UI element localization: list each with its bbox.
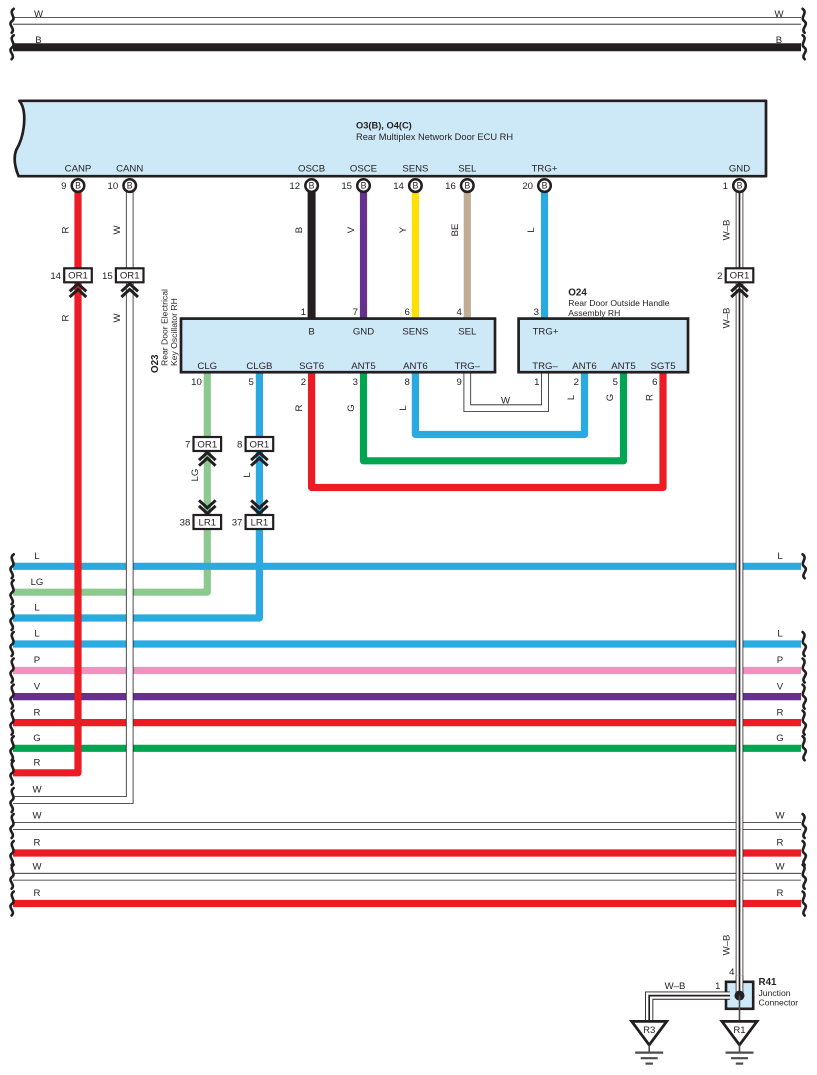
svg-text:6: 6 xyxy=(405,307,410,318)
svg-text:15: 15 xyxy=(102,271,113,282)
svg-text:GND: GND xyxy=(729,163,750,174)
svg-text:R1: R1 xyxy=(733,1025,745,1036)
component R41 Junction Connector xyxy=(726,982,753,1009)
svg-text:CLGB: CLGB xyxy=(246,361,272,372)
svg-text:LG: LG xyxy=(31,577,44,588)
svg-text:V: V xyxy=(777,681,784,692)
svg-text:LR1: LR1 xyxy=(251,517,269,528)
svg-text:6: 6 xyxy=(652,377,657,388)
svg-text:Y: Y xyxy=(398,226,409,233)
svg-text:OSCE: OSCE xyxy=(350,163,377,174)
connector 38 LR1 xyxy=(194,515,222,529)
svg-text:O3(B), O4(C): O3(B), O4(C) xyxy=(356,121,412,131)
wire R row bottom xyxy=(13,849,801,856)
svg-text:BE: BE xyxy=(450,224,461,237)
svg-text:SEL: SEL xyxy=(458,163,477,174)
svg-text:R: R xyxy=(294,404,305,411)
pin 20 (B) TRG+ xyxy=(538,179,551,192)
svg-text:Junction: Junction xyxy=(759,988,791,998)
svg-text:OR1: OR1 xyxy=(68,271,88,282)
svg-text:1: 1 xyxy=(723,181,728,192)
pin 15 (B) OSCE xyxy=(357,179,370,192)
svg-text:TRG–: TRG– xyxy=(532,361,558,372)
svg-text:GND: GND xyxy=(353,327,374,338)
svg-text:14: 14 xyxy=(50,271,61,282)
pin 14 (B) SENS xyxy=(409,179,422,192)
svg-text:TRG–: TRG– xyxy=(455,361,481,372)
wire W-B R41 to R3 ground xyxy=(649,996,730,1022)
svg-text:ANT5: ANT5 xyxy=(611,361,636,372)
svg-text:R: R xyxy=(34,758,41,769)
svg-text:B: B xyxy=(75,181,81,191)
wire V OSCE xyxy=(360,192,367,319)
ground R3 xyxy=(632,1021,667,1045)
svg-text:9: 9 xyxy=(456,377,461,388)
svg-text:W–B: W–B xyxy=(722,935,733,956)
svg-text:L: L xyxy=(777,629,783,640)
svg-text:B: B xyxy=(294,227,305,233)
svg-text:B: B xyxy=(464,181,470,191)
svg-text:L: L xyxy=(34,603,40,614)
wire R41 to R1 ground xyxy=(739,996,741,1022)
svg-text:10: 10 xyxy=(108,181,119,192)
svg-text:LG: LG xyxy=(190,469,201,482)
svg-text:OR1: OR1 xyxy=(197,439,217,450)
svg-text:Rear Multiplex Network Door EC: Rear Multiplex Network Door ECU RH xyxy=(356,132,513,142)
svg-text:W: W xyxy=(32,785,42,796)
svg-text:G: G xyxy=(776,733,783,744)
svg-text:9: 9 xyxy=(61,181,66,192)
wire G row xyxy=(13,745,801,752)
svg-text:Assembly RH: Assembly RH xyxy=(568,308,620,318)
wire W-B GND to R41 xyxy=(736,282,744,995)
svg-text:R: R xyxy=(34,838,41,849)
svg-text:SENS: SENS xyxy=(402,163,428,174)
svg-text:8: 8 xyxy=(237,440,242,451)
svg-text:12: 12 xyxy=(289,181,300,192)
svg-text:CLG: CLG xyxy=(197,361,217,372)
svg-text:37: 37 xyxy=(232,518,243,529)
svg-text:OR1: OR1 xyxy=(730,271,750,282)
svg-text:W: W xyxy=(32,811,42,822)
svg-text:1: 1 xyxy=(534,377,539,388)
wire BE SEL xyxy=(464,192,471,319)
wire R CANP xyxy=(74,192,81,268)
svg-text:R: R xyxy=(777,888,784,899)
wire W row bottom xyxy=(13,873,801,881)
svg-text:R: R xyxy=(645,394,656,401)
svg-text:10: 10 xyxy=(191,377,202,388)
wire V row xyxy=(13,693,801,700)
pin 9 (B) CANP xyxy=(72,179,85,192)
svg-text:TRG+: TRG+ xyxy=(532,163,558,174)
pin 16 (B) SEL xyxy=(461,179,474,192)
svg-text:R: R xyxy=(777,707,784,718)
svg-text:W: W xyxy=(112,225,123,235)
svg-text:W: W xyxy=(34,9,44,20)
svg-text:L: L xyxy=(398,405,409,411)
svg-text:20: 20 xyxy=(522,181,533,192)
svg-text:Rear Door Outside Handle: Rear Door Outside Handle xyxy=(568,298,669,308)
svg-text:CANN: CANN xyxy=(116,163,143,174)
svg-text:W: W xyxy=(775,811,785,822)
svg-text:B: B xyxy=(309,181,315,191)
svg-text:P: P xyxy=(34,655,40,666)
svg-text:R41: R41 xyxy=(759,977,778,988)
svg-text:B: B xyxy=(361,181,367,191)
svg-text:G: G xyxy=(33,733,40,744)
pin 1 (B) GND xyxy=(733,179,746,192)
wire L row xyxy=(13,640,801,647)
svg-text:B: B xyxy=(127,181,133,191)
svg-text:R: R xyxy=(61,226,72,233)
svg-text:LR1: LR1 xyxy=(198,517,216,528)
svg-text:R: R xyxy=(777,838,784,849)
svg-text:15: 15 xyxy=(341,181,352,192)
wire B OSCB xyxy=(308,192,316,319)
svg-text:38: 38 xyxy=(180,518,191,529)
svg-text:2: 2 xyxy=(301,377,306,388)
svg-text:L: L xyxy=(526,227,537,233)
svg-text:16: 16 xyxy=(445,181,456,192)
wire W CANN xyxy=(126,192,134,268)
component O23 Rear Door Electrical Key Oscillator RH xyxy=(181,319,495,373)
svg-text:ANT5: ANT5 xyxy=(351,361,376,372)
wire R row bottom xyxy=(13,900,801,907)
svg-text:L: L xyxy=(34,551,40,562)
svg-text:4: 4 xyxy=(729,967,735,978)
connector 2 OR1 xyxy=(726,268,754,282)
svg-text:L: L xyxy=(34,629,40,640)
wire Y SENS xyxy=(412,192,419,319)
svg-text:Connector: Connector xyxy=(759,998,799,1008)
svg-text:O24: O24 xyxy=(568,288,587,299)
svg-text:B: B xyxy=(35,35,41,46)
ground R1 xyxy=(722,1021,757,1045)
svg-text:L: L xyxy=(777,551,783,562)
svg-text:1: 1 xyxy=(301,307,306,318)
connector 14 OR1 xyxy=(64,268,92,282)
svg-text:G: G xyxy=(346,404,357,411)
svg-text:2: 2 xyxy=(574,377,579,388)
svg-text:ANT6: ANT6 xyxy=(572,361,597,372)
svg-text:SEL: SEL xyxy=(458,327,477,338)
svg-text:SGT5: SGT5 xyxy=(650,361,675,372)
svg-text:R3: R3 xyxy=(643,1025,655,1036)
svg-text:7: 7 xyxy=(185,440,190,451)
svg-text:W–B: W–B xyxy=(722,308,733,329)
wire G ANT5 loop xyxy=(364,372,624,461)
wire L row xyxy=(13,563,801,570)
svg-text:V: V xyxy=(346,226,357,233)
svg-text:OSCB: OSCB xyxy=(298,163,325,174)
wire L ANT6 loop xyxy=(415,372,584,434)
svg-text:OR1: OR1 xyxy=(250,439,270,450)
wire L TRG+ xyxy=(541,192,548,319)
wire R SGT6-SGT5 loop xyxy=(312,372,663,487)
svg-text:P: P xyxy=(777,655,783,666)
connector 7 OR1 xyxy=(194,437,222,451)
svg-text:R: R xyxy=(61,314,72,321)
svg-text:W–B: W–B xyxy=(665,981,686,992)
svg-text:8: 8 xyxy=(405,377,410,388)
svg-text:7: 7 xyxy=(353,307,358,318)
svg-text:OR1: OR1 xyxy=(120,271,140,282)
ECU O3(B),O4(C) Rear Multiplex Network Door ECU RH xyxy=(15,101,766,176)
wire W-B GND xyxy=(736,192,744,268)
svg-text:B: B xyxy=(308,327,314,338)
svg-text:B: B xyxy=(542,181,548,191)
wire B trunk top xyxy=(13,43,801,51)
connector 8 OR1 xyxy=(246,437,274,451)
svg-text:3: 3 xyxy=(353,377,358,388)
pin 10 (B) CANN xyxy=(123,179,136,192)
wire W TRG- loop O23 to O24 xyxy=(467,372,545,408)
svg-text:W: W xyxy=(774,9,784,20)
svg-text:ANT6: ANT6 xyxy=(403,361,428,372)
svg-text:B: B xyxy=(776,35,782,46)
svg-text:W: W xyxy=(501,396,511,407)
svg-text:SENS: SENS xyxy=(402,327,428,338)
svg-text:W–B: W–B xyxy=(722,220,733,241)
wire W row bottom xyxy=(13,822,801,830)
svg-text:G: G xyxy=(605,394,616,401)
connector 37 LR1 xyxy=(246,515,274,529)
wire R row xyxy=(13,719,801,726)
svg-text:14: 14 xyxy=(393,181,404,192)
svg-text:W: W xyxy=(112,313,123,323)
wire W trunk top xyxy=(13,17,801,25)
svg-text:V: V xyxy=(34,681,41,692)
svg-text:4: 4 xyxy=(456,307,462,318)
svg-text:5: 5 xyxy=(249,377,254,388)
svg-text:TRG+: TRG+ xyxy=(533,327,559,338)
svg-text:R: R xyxy=(34,707,41,718)
svg-text:W: W xyxy=(775,861,785,872)
wire LG CLG xyxy=(204,372,211,437)
svg-text:SGT6: SGT6 xyxy=(299,361,324,372)
svg-text:L: L xyxy=(242,472,253,478)
svg-text:5: 5 xyxy=(613,377,618,388)
svg-text:B: B xyxy=(737,181,743,191)
pin 12 (B) OSCB xyxy=(305,179,318,192)
svg-text:3: 3 xyxy=(534,307,539,318)
wire L CLGB xyxy=(256,372,263,437)
svg-text:2: 2 xyxy=(717,271,722,282)
svg-text:Key Oscillator RH: Key Oscillator RH xyxy=(169,298,179,366)
svg-text:W: W xyxy=(32,861,42,872)
svg-text:B: B xyxy=(412,181,418,191)
svg-text:L: L xyxy=(566,394,577,400)
svg-text:CANP: CANP xyxy=(65,163,92,174)
component O24 Rear Door Outside Handle Assembly RH xyxy=(519,319,688,373)
svg-text:1: 1 xyxy=(715,981,720,992)
svg-text:R: R xyxy=(34,888,41,899)
connector 15 OR1 xyxy=(116,268,144,282)
wire P row xyxy=(13,667,801,674)
